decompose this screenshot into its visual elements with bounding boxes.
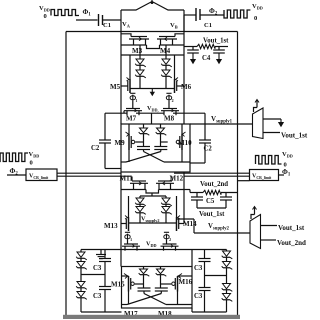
node VA column stage2 [120,196,122,267]
figure crop bar [63,315,240,319]
pass transistor left (stage2) [124,243,138,245]
stage1 latch box [121,124,190,172]
node VA lower column [120,172,122,196]
transistor M3 [131,36,147,38]
wire VCR right box to outer column [238,180,250,182]
diode left (box2) [143,267,145,270]
rail to stage2 diodes [140,195,166,197]
svg-text:VA: VA [122,21,131,29]
wire node VB to C1 right [184,14,196,16]
right bottom tie wire [192,311,227,313]
svg-text:VCR_limit: VCR_limit [252,174,272,181]
wire C2 to box1 [105,168,121,170]
stage2 latch box [122,267,193,309]
outer left wire [65,32,67,316]
wire M8 rail down [204,113,206,140]
svg-text:0: 0 [30,160,33,167]
clock phi2 bar symbol (stage2) [164,235,169,239]
transistor M10 [181,124,183,134]
svg-text:Vout_2nd: Vout_2nd [200,181,228,188]
diode chain right top pair [226,250,228,252]
load bottom rail [197,207,226,209]
ground symbol [100,250,102,255]
rail M7 to M8 [136,112,164,114]
wire C1 to phi2 [201,14,225,16]
svg-text:Φ1: Φ1 [83,8,92,18]
wire C3 mid right [204,262,206,288]
svg-text:2: 2 [172,98,174,103]
svg-text:C3: C3 [93,293,102,300]
transistor M14 [176,217,178,231]
VCR left output wires [57,172,121,174]
svg-text:M3: M3 [132,47,143,55]
svg-text:1: 1 [130,237,132,242]
clock phi1 bar symbol (stage2) [125,235,130,239]
capacitor left (box2) [138,287,151,289]
diode stack left (stage1) [139,45,141,59]
svg-text:M7: M7 [126,115,137,123]
load resistor (stage2) [190,192,203,194]
svg-text:VDD: VDD [39,5,50,13]
svg-text:C1: C1 [204,22,212,29]
VCR limit box (right) [250,170,279,181]
wire center to box top [151,113,153,124]
svg-text:Vout_1st: Vout_1st [278,224,305,232]
trapezoid1 adjust arrow [254,108,258,113]
rail M5 to M6 [130,88,175,90]
rail under M7 [105,112,127,114]
transistor M16 [178,275,193,277]
svg-text:M13: M13 [104,222,118,230]
trapezoid2 adjust arrow [251,215,255,220]
trapezoid1 output Vout_1st [263,132,280,134]
Vsupply2 rail [194,232,250,234]
clock phi1 bar symbol [130,96,135,100]
wire C3 mid left [104,262,106,287]
diode left (box1) [143,124,145,128]
capacitor C2 (left) [104,113,106,140]
VCR right output wires [174,172,250,174]
cross-coupling X (box1) [143,150,145,152]
svg-text:2: 2 [169,237,171,242]
capacitor left (box1) [137,146,150,148]
svg-text:Φ1: Φ1 [282,168,291,178]
wire phi2 to pair gate [166,240,168,244]
wire phi1 to pair gate [127,240,129,244]
transistor M7 [126,108,140,110]
rail under M3 M4 with notch [121,44,147,46]
svg-text:M5: M5 [110,83,121,91]
svg-text:Vout_1st: Vout_1st [281,132,308,140]
capacitor C3 upper left [104,250,106,259]
transistor M5 [129,79,131,93]
svg-text:1: 1 [135,98,137,103]
diode chain right bottom pair [226,276,228,284]
svg-text:M6: M6 [181,83,192,91]
wire M14 to Vsupply2 rail [177,218,195,220]
wire phi1 to C1 [76,19,98,21]
wire phi2 to VCR box [7,174,26,176]
svg-text:VDD: VDD [282,151,293,159]
pass transistor right (stage2) [163,243,177,245]
svg-text:M12: M12 [170,175,184,183]
rail M13 to M14 [129,222,177,224]
svg-text:C2: C2 [204,146,213,153]
svg-text:C3: C3 [93,265,102,272]
svg-text:VDD,: VDD, [147,105,159,113]
clock source phi2 (left mid) [0,153,28,162]
diode right (box1) [160,124,162,128]
clock source phi1 (right mid) [256,156,282,165]
svg-text:0: 0 [254,15,257,22]
svg-text:M10: M10 [178,139,192,147]
capacitor C5 left [196,193,198,197]
svg-text:Vout_1st: Vout_1st [199,211,225,218]
transistor M8 [163,108,177,110]
svg-text:M9: M9 [115,139,126,147]
rail under M8 to right [173,112,205,114]
svg-text:VDD: VDD [146,241,157,249]
center tap arrow [151,89,153,95]
node VB column stage2 [183,196,185,224]
diode stack right (stage1) [165,45,167,59]
wire box2 top right feed [191,250,193,267]
capacitor C2 (right) [199,139,211,141]
wire VCR right to phi1 [279,174,285,176]
wire phi1 to M7 gate [132,101,134,109]
capacitor C4 right [218,47,220,50]
transistor M11 [132,180,146,182]
svg-text:Vout_1st: Vout_1st [203,38,229,45]
svg-text:C1: C1 [103,22,111,29]
svg-text:VDD: VDD [29,151,40,159]
svg-text:M15: M15 [111,281,125,289]
wire phi2 to M8 gate [168,101,170,109]
wire M12 rail to load [184,189,190,191]
transistor M6 [174,79,176,93]
wire C3 bottom right [204,291,206,313]
svg-text:C5: C5 [206,198,215,205]
svg-text:Vsupply2: Vsupply2 [141,216,159,224]
svg-text:C4: C4 [202,55,211,62]
outer right wire [237,32,239,316]
diode stack right (stage2) [165,196,167,198]
svg-text:0: 0 [44,13,47,20]
rail under M11 M12 with notch [121,189,146,191]
transistor M15 [122,275,129,277]
load box right edge top [183,15,185,32]
svg-text:M4: M4 [160,47,171,55]
svg-text:VDD: VDD [252,3,263,11]
svg-text:Vout_2nd: Vout_2nd [277,239,306,247]
buffer trapezoid 2 [250,215,261,249]
diode stack left (stage2) [139,196,141,198]
svg-text:Vsupply2: Vsupply2 [208,223,230,232]
diode right (box2) [160,267,162,270]
svg-text:C3: C3 [194,293,203,300]
buffer trapezoid 1 [253,108,264,139]
capacitor C1 (right) [195,8,197,21]
diode chain left bottom pair [80,275,82,282]
svg-text:M14: M14 [183,220,197,228]
transistor M12 [158,180,172,182]
node VB column [183,10,185,124]
clock phi2 bar symbol [166,96,171,100]
top rail with peak junction [121,2,184,11]
stage2 ground rail [81,249,227,251]
svg-text:C2: C2 [91,145,100,152]
cross-coupling X (box2) [143,291,145,294]
load resistor (stage1) [184,46,197,48]
clock source phi2 (VDD/0 levels) [224,10,250,18]
rail to diode stacks [121,54,184,56]
node VA column [120,10,122,124]
wire C3 bottom left [104,290,106,313]
capacitor right (box2) [155,287,168,289]
capacitor C3 lower right [199,287,211,289]
transistor M9 [128,124,130,134]
svg-text:C3: C3 [194,265,203,272]
diode chain left top pair [80,250,82,253]
trapezoid2 output Vout_1st [261,225,278,227]
VCR limit box (left) [26,169,57,181]
outer top wire [66,31,238,33]
node VB lower column [183,172,185,196]
capacitor C5 right [225,193,227,197]
svg-text:Vsupply1: Vsupply1 [211,115,233,125]
trapezoid2 output Vout_2nd [261,239,277,241]
right mid tie wire [205,275,227,277]
trapezoid1 output top [263,118,281,120]
capacitor right (box1) [154,146,167,148]
wire C2r to box1 [190,162,205,164]
Vsupply1 rail [190,123,253,125]
capacitor C1 (left) [98,14,100,26]
left mid tie wire [81,274,105,276]
svg-text:M8: M8 [164,115,175,123]
svg-text:VCR_limit: VCR_limit [29,174,49,181]
wire C1 to node VA [103,19,121,21]
svg-text:VB: VB [170,22,178,30]
left bottom tie wire [81,311,122,313]
capacitor C3 lower left [99,286,111,288]
svg-text:M16: M16 [179,278,193,286]
transistor M4 [159,36,175,38]
capacitor C3 upper right [204,250,206,259]
capacitor C4 left [192,47,194,50]
transistor M13 [128,217,130,231]
